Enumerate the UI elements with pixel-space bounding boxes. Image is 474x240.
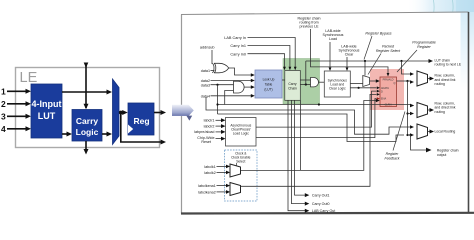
- svg-text:Register Select: Register Select: [376, 49, 401, 53]
- wire carry logic to mux: [102, 133, 108, 135]
- wire data2: [211, 80, 252, 82]
- svg-text:2: 2: [1, 99, 6, 109]
- carry-out wire: [85, 141, 87, 150]
- LE outer box: [16, 68, 160, 148]
- Reg output wire: [154, 112, 161, 114]
- wire gate2 to LUT: [244, 86, 251, 88]
- gate carry xor: [311, 78, 319, 87]
- svg-text:Clear Logic: Clear Logic: [329, 87, 346, 91]
- carry chain outputs down: [288, 100, 306, 210]
- clock enable select dashed box: [225, 150, 258, 201]
- svg-text:ENA: ENA: [381, 98, 386, 101]
- svg-text:Carry: Carry: [76, 116, 98, 126]
- wire gate2 second input: [225, 91, 234, 105]
- svg-text:D: D: [381, 91, 383, 94]
- svg-text:Local Routing: Local Routing: [435, 129, 456, 133]
- wire mux to register D: [370, 80, 377, 82]
- gate AND data3: [234, 81, 245, 93]
- svg-text:(LUT): (LUT): [264, 88, 272, 92]
- wire sync clear: [346, 57, 348, 69]
- wire sync load: [329, 42, 331, 69]
- async output 2: [256, 99, 377, 138]
- svg-text:Load: Load: [329, 37, 337, 41]
- bypass drop to output mux1: [402, 61, 411, 74]
- svg-text:Carry In1: Carry In1: [230, 44, 246, 48]
- output mux 2: [417, 103, 428, 118]
- mux3 bottom input: [410, 133, 414, 137]
- wire input3: [7, 115, 27, 117]
- wire data4: [211, 95, 252, 97]
- long bus line 2 / hook A: [206, 97, 411, 134]
- async output 1: [256, 91, 377, 127]
- register chain output: [409, 134, 411, 136]
- svg-text:labclr2: labclr2: [204, 124, 215, 128]
- svg-text:Logic: Logic: [76, 127, 99, 137]
- svg-text:1: 1: [1, 87, 6, 97]
- svg-text:labclk1: labclk1: [204, 165, 215, 169]
- svg-text:LE: LE: [20, 70, 38, 86]
- wire addnsub: [211, 50, 213, 64]
- svg-text:Register Bypass: Register Bypass: [365, 32, 391, 36]
- LUT block: [255, 70, 282, 98]
- svg-text:Programmable: Programmable: [412, 41, 436, 45]
- wire lut feedback vertical: [300, 100, 302, 170]
- wire gate3 to sync box: [319, 81, 325, 83]
- svg-text:routing: routing: [435, 82, 445, 86]
- clock triangle: [128, 125, 133, 134]
- wire LUT chain riser: [305, 61, 307, 85]
- svg-text:previous LE: previous LE: [300, 25, 320, 29]
- svg-text:Select: Select: [236, 160, 245, 164]
- wire LUT to carry gate area: [282, 79, 285, 81]
- wire sync to mux: [350, 83, 363, 85]
- svg-text:PRN/ALD: PRN/ALD: [383, 79, 394, 82]
- svg-text:Carry In0: Carry In0: [230, 52, 246, 56]
- output mux 1: [417, 71, 428, 86]
- svg-text:data3: data3: [201, 83, 210, 87]
- sky strip top right: [406, 0, 474, 13]
- async clear preset box: [226, 118, 257, 147]
- svg-text:Carry Out0: Carry Out0: [312, 202, 330, 206]
- svg-text:3: 3: [1, 112, 6, 122]
- svg-text:Reset: Reset: [201, 140, 211, 144]
- svg-text:routing: routing: [435, 110, 445, 114]
- mux3 top input: [410, 125, 414, 129]
- wire carry in0: [248, 54, 285, 68]
- programmable register box: [380, 77, 397, 107]
- output mux 3: [417, 124, 428, 139]
- mux: [113, 79, 120, 145]
- long bus line 1: [218, 104, 411, 106]
- packed register mux: [363, 76, 370, 87]
- big 3d arrow: [172, 105, 194, 121]
- clock ena mux output: [241, 94, 377, 186]
- carry chain block: [285, 71, 301, 101]
- green carry region: [283, 59, 320, 105]
- svg-text:Chain: Chain: [288, 87, 297, 91]
- bypass drop to packed mux: [364, 61, 366, 76]
- 4-Input LUT block: [31, 84, 62, 138]
- wire carry in1: [248, 46, 290, 68]
- register input arrows: [377, 86, 380, 89]
- svg-text:Carry: Carry: [288, 82, 297, 86]
- svg-text:4-Input: 4-Input: [32, 99, 62, 109]
- wire input4: [7, 128, 27, 130]
- svg-text:labclkena1: labclkena1: [198, 184, 216, 188]
- wire gate1 to LUT: [229, 68, 252, 75]
- carry-in wire: [85, 64, 87, 109]
- clock enable mux: [230, 183, 241, 196]
- svg-text:labpre/aload: labpre/aload: [194, 130, 214, 134]
- Reg block: [128, 103, 154, 135]
- wire select stub: [236, 163, 238, 166]
- svg-text:addnsub: addnsub: [200, 46, 215, 50]
- wire data3 branch down: [217, 85, 219, 114]
- mux2 top input: [410, 104, 414, 108]
- svg-text:labclkena2: labclkena2: [198, 191, 216, 195]
- wire data3: [211, 84, 234, 86]
- svg-text:Carry Out1: Carry Out1: [312, 194, 330, 198]
- clock mux output: [241, 101, 377, 171]
- carry logic block: [72, 110, 102, 142]
- panel borders: [181, 15, 183, 214]
- svg-text:LAB Carry In: LAB Carry In: [224, 36, 246, 40]
- svg-text:Register: Register: [417, 45, 431, 49]
- svg-text:Reg: Reg: [133, 116, 149, 126]
- svg-text:data4: data4: [201, 95, 210, 99]
- gate XOR addnsub/data1: [214, 63, 229, 73]
- LUT chain routing wire: [306, 60, 430, 62]
- svg-text:labclr1: labclr1: [204, 119, 215, 123]
- red register region: [370, 69, 404, 110]
- feedback wire down: [121, 113, 161, 143]
- wire carry chain to gate: [300, 79, 310, 81]
- svg-text:routing to next LE: routing to next LE: [435, 63, 462, 67]
- svg-text:output: output: [437, 153, 446, 157]
- wire LUT to mux: [62, 91, 108, 93]
- wire register chain in: [311, 29, 389, 74]
- wire LAB carry in: [248, 38, 296, 68]
- svg-text:data1: data1: [201, 69, 210, 73]
- Q feedback vertical: [407, 81, 409, 135]
- svg-text:labclk2: labclk2: [204, 171, 215, 175]
- mux2 bottom input: [410, 112, 414, 116]
- svg-text:Load Logic: Load Logic: [233, 132, 249, 136]
- sync load clear box: [324, 71, 350, 97]
- svg-text:Clear: Clear: [345, 53, 354, 57]
- wire LUT to carry logic: [62, 133, 68, 135]
- Q output wire: [397, 80, 408, 82]
- svg-text:Look Up: Look Up: [263, 78, 275, 82]
- svg-text:Q: Q: [394, 82, 396, 85]
- svg-text:Table: Table: [265, 83, 273, 87]
- svg-text:LUT: LUT: [38, 111, 56, 121]
- svg-text:LAB Carry Out: LAB Carry Out: [312, 209, 335, 213]
- wire sync to ADATA: [350, 87, 376, 89]
- clock mux: [230, 164, 241, 177]
- svg-text:Packed: Packed: [382, 45, 395, 49]
- junction dot: [119, 111, 123, 115]
- wire mux to reg: [119, 112, 124, 114]
- svg-text:4: 4: [1, 124, 6, 134]
- wire input1: [7, 90, 27, 92]
- long bus line 3 / hook B: [218, 114, 405, 142]
- svg-text:Feedback: Feedback: [385, 156, 400, 160]
- wire input2: [7, 103, 27, 105]
